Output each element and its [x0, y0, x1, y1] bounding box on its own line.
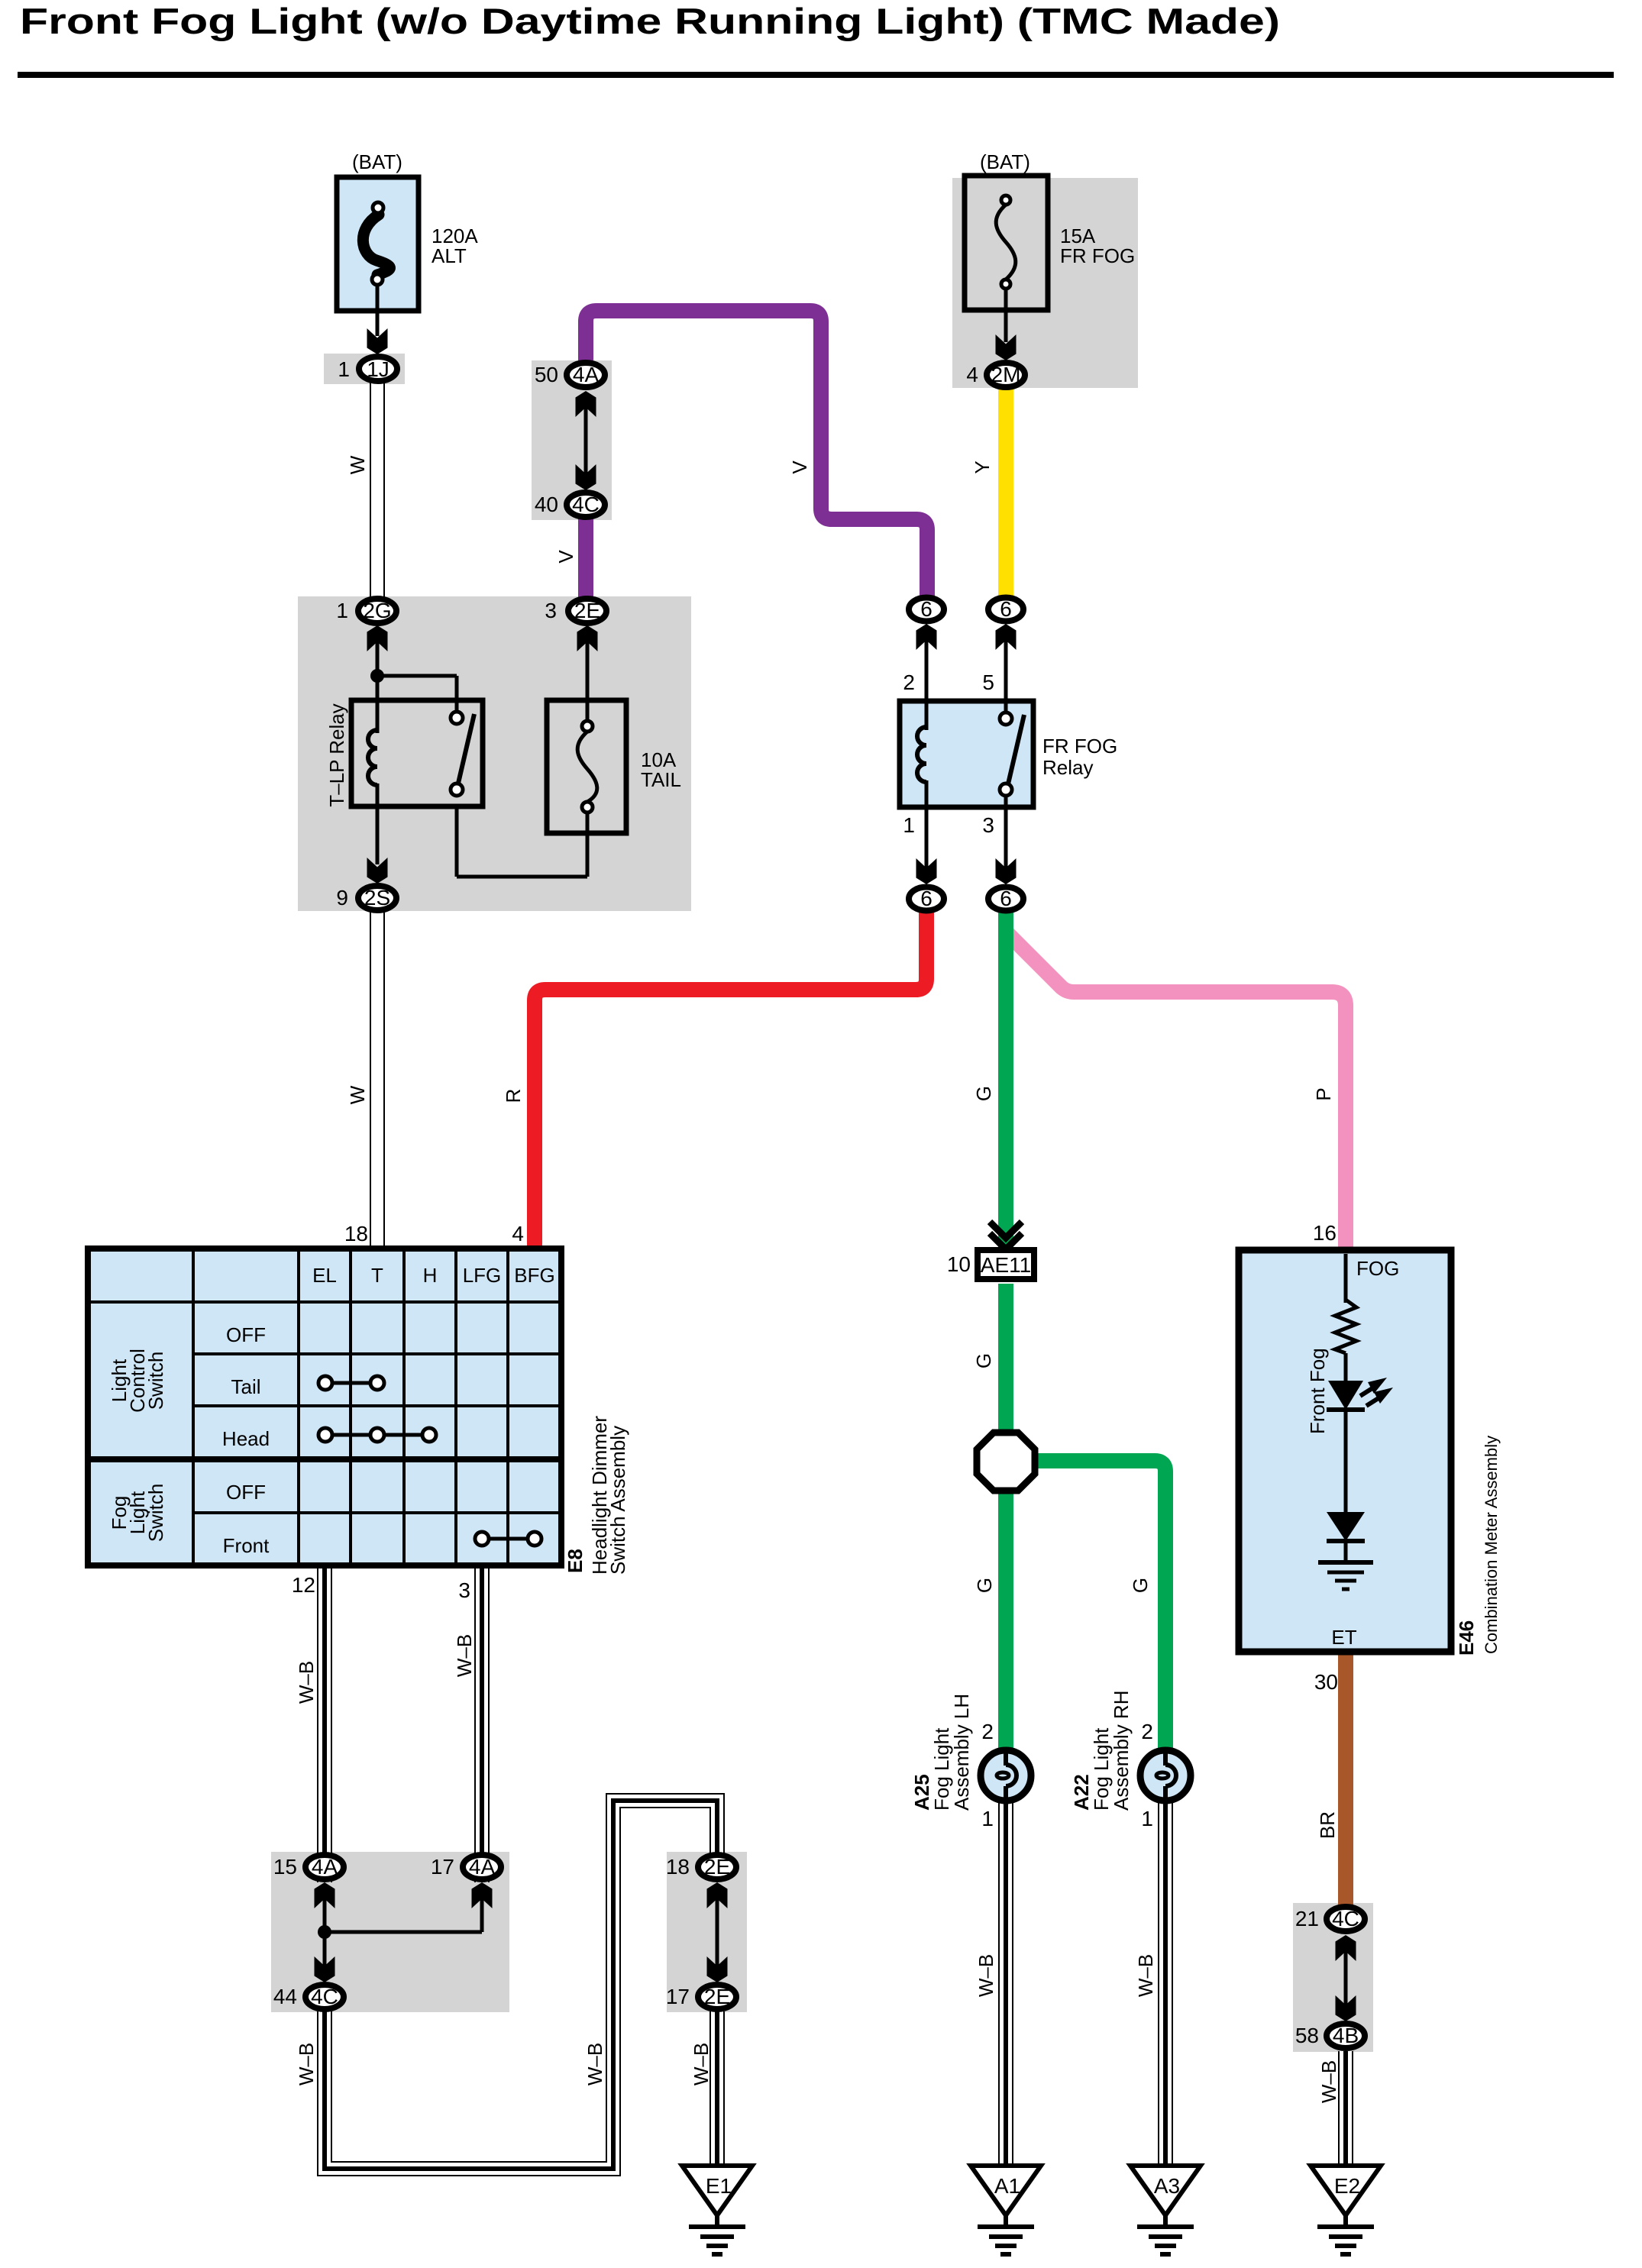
- svg-text:OFF: OFF: [226, 1323, 266, 1346]
- svg-text:10: 10: [947, 1252, 971, 1276]
- svg-text:OFF: OFF: [226, 1481, 266, 1504]
- svg-text:W–B: W–B: [295, 1661, 318, 1704]
- svg-text:A1: A1: [994, 2174, 1020, 2198]
- svg-text:5: 5: [982, 670, 994, 694]
- svg-text:1: 1: [338, 357, 350, 381]
- svg-text:W–B: W–B: [690, 2043, 713, 2085]
- svg-text:Head: Head: [222, 1427, 270, 1450]
- svg-text:2: 2: [981, 1720, 994, 1743]
- svg-text:A22: A22: [1070, 1774, 1093, 1811]
- svg-text:Tail: Tail: [231, 1375, 260, 1398]
- svg-text:(BAT): (BAT): [352, 150, 402, 173]
- svg-text:E8: E8: [564, 1549, 587, 1573]
- svg-text:15: 15: [273, 1855, 297, 1879]
- svg-text:W–B: W–B: [295, 2043, 318, 2085]
- svg-text:4C: 4C: [311, 1985, 338, 2008]
- svg-text:1: 1: [981, 1807, 994, 1830]
- svg-text:BFG: BFG: [514, 1264, 554, 1287]
- svg-text:R: R: [502, 1089, 525, 1103]
- svg-text:AE11: AE11: [981, 1253, 1031, 1277]
- svg-text:1: 1: [903, 813, 915, 837]
- svg-text:W–B: W–B: [1134, 1954, 1157, 1997]
- svg-text:Front Fog: Front Fog: [1306, 1348, 1329, 1434]
- svg-text:17: 17: [431, 1855, 454, 1879]
- svg-text:1J: 1J: [367, 357, 389, 381]
- svg-text:Combination Meter Assembly: Combination Meter Assembly: [1482, 1436, 1501, 1654]
- svg-text:3: 3: [545, 599, 557, 622]
- svg-text:W–B: W–B: [583, 2043, 606, 2085]
- svg-text:4A: 4A: [312, 1855, 338, 1879]
- svg-text:Front Fog Light (w/o Daytime R: Front Fog Light (w/o Daytime Running Lig…: [20, 1, 1280, 41]
- svg-text:G: G: [973, 1578, 996, 1593]
- svg-text:H: H: [423, 1264, 438, 1287]
- svg-text:4B: 4B: [1333, 2024, 1359, 2047]
- svg-text:A25: A25: [910, 1774, 933, 1811]
- svg-text:44: 44: [273, 1985, 297, 2008]
- svg-text:2E: 2E: [574, 599, 600, 622]
- svg-text:W: W: [346, 1085, 369, 1104]
- svg-text:Assembly RH: Assembly RH: [1110, 1691, 1133, 1811]
- svg-text:Switch: Switch: [144, 1484, 167, 1543]
- svg-text:6: 6: [1000, 887, 1012, 910]
- svg-text:G: G: [972, 1353, 995, 1368]
- svg-text:21: 21: [1295, 1907, 1319, 1930]
- svg-text:2S: 2S: [364, 886, 390, 909]
- svg-text:2E: 2E: [704, 1985, 730, 2008]
- svg-text:FR FOG: FR FOG: [1060, 244, 1135, 267]
- svg-text:E46: E46: [1455, 1620, 1478, 1656]
- svg-text:6: 6: [920, 887, 933, 910]
- svg-text:ALT: ALT: [432, 244, 467, 267]
- svg-text:BR: BR: [1316, 1811, 1339, 1839]
- svg-text:30: 30: [1314, 1670, 1338, 1694]
- svg-text:(BAT): (BAT): [980, 150, 1030, 173]
- svg-text:Relay: Relay: [1042, 756, 1093, 779]
- svg-text:T: T: [371, 1264, 383, 1287]
- svg-text:TAIL: TAIL: [641, 768, 681, 791]
- svg-text:2M: 2M: [991, 363, 1021, 386]
- svg-text:17: 17: [666, 1985, 690, 2008]
- svg-text:1: 1: [1141, 1807, 1153, 1830]
- svg-text:16: 16: [1313, 1221, 1337, 1245]
- svg-text:6: 6: [1000, 597, 1012, 621]
- svg-text:6: 6: [920, 597, 933, 621]
- svg-text:Front: Front: [223, 1534, 270, 1557]
- svg-text:50: 50: [535, 363, 558, 386]
- svg-text:2: 2: [1141, 1720, 1153, 1743]
- svg-text:ET: ET: [1331, 1626, 1356, 1649]
- svg-text:12: 12: [292, 1573, 315, 1597]
- svg-text:V: V: [788, 460, 811, 474]
- svg-text:P: P: [1312, 1087, 1335, 1100]
- svg-text:Switch Assembly: Switch Assembly: [606, 1426, 629, 1575]
- svg-text:40: 40: [535, 493, 558, 516]
- svg-text:Assembly LH: Assembly LH: [950, 1694, 973, 1811]
- svg-text:3: 3: [458, 1578, 470, 1602]
- svg-text:Switch: Switch: [144, 1352, 167, 1410]
- svg-text:4C: 4C: [1332, 1907, 1359, 1930]
- svg-text:A3: A3: [1154, 2174, 1180, 2198]
- svg-text:LFG: LFG: [463, 1264, 502, 1287]
- svg-text:W–B: W–B: [975, 1954, 997, 1997]
- svg-text:FR FOG: FR FOG: [1042, 735, 1117, 758]
- svg-text:V: V: [554, 550, 577, 564]
- svg-text:58: 58: [1295, 2024, 1319, 2047]
- svg-text:1: 1: [336, 599, 348, 622]
- svg-text:4A: 4A: [469, 1855, 496, 1879]
- svg-text:18: 18: [344, 1222, 368, 1245]
- svg-text:W: W: [346, 455, 369, 474]
- svg-text:FOG: FOG: [1356, 1257, 1399, 1280]
- svg-text:4: 4: [966, 363, 978, 386]
- svg-text:T–LP Relay: T–LP Relay: [325, 703, 348, 806]
- svg-text:4A: 4A: [573, 363, 600, 386]
- svg-text:4: 4: [512, 1222, 524, 1245]
- svg-text:E2: E2: [1334, 2174, 1360, 2198]
- svg-text:W–B: W–B: [1317, 2060, 1340, 2103]
- svg-text:2E: 2E: [704, 1855, 730, 1879]
- svg-text:E1: E1: [706, 2174, 732, 2198]
- svg-text:18: 18: [666, 1855, 690, 1879]
- svg-text:G: G: [1129, 1578, 1152, 1593]
- svg-text:3: 3: [982, 813, 994, 837]
- svg-text:G: G: [972, 1086, 995, 1101]
- svg-text:EL: EL: [312, 1264, 337, 1287]
- svg-text:2G: 2G: [363, 599, 391, 622]
- svg-text:2: 2: [903, 670, 915, 694]
- svg-text:9: 9: [336, 886, 348, 909]
- svg-text:4C: 4C: [572, 493, 600, 516]
- svg-text:Y: Y: [971, 460, 994, 473]
- svg-text:W–B: W–B: [453, 1634, 476, 1677]
